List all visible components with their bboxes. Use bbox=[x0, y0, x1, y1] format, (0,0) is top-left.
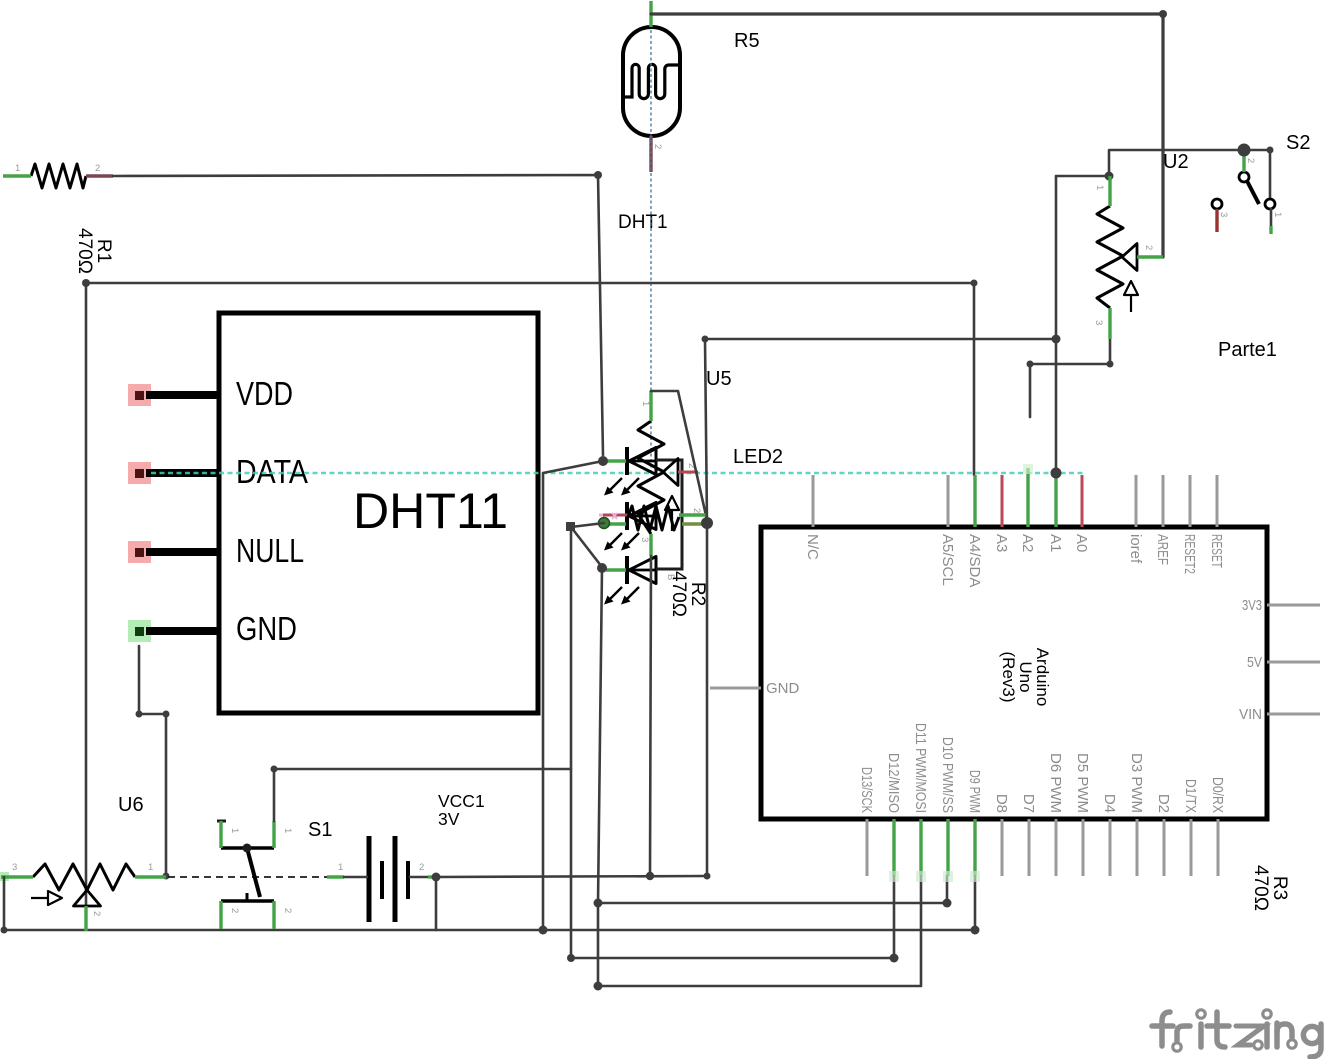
wire U5pin3 down bbox=[650, 556, 651, 876]
svg-text:VIN: VIN bbox=[1239, 706, 1262, 723]
svg-text:U2: U2 bbox=[1163, 151, 1189, 173]
svg-text:D12/MISO: D12/MISO bbox=[885, 753, 902, 813]
LED2 pin blue wire (anode B) bbox=[606, 568, 626, 571]
Parte1 label bbox=[1218, 339, 1277, 361]
svg-text:2: 2 bbox=[91, 911, 102, 916]
wire U2 pin3 to A2 bbox=[1030, 339, 1110, 417]
svg-text:Parte1: Parte1 bbox=[1218, 339, 1277, 361]
ratsnest teal horizontal DATA-A0 bbox=[151, 472, 1083, 475]
svg-text:D5 PWM: D5 PWM bbox=[1074, 753, 1091, 813]
LED2 red emission arrows bbox=[604, 478, 639, 496]
junction B (LED green anode) bbox=[599, 518, 610, 529]
svg-text:AREF: AREF bbox=[1154, 534, 1171, 565]
wire U5 pin1 to node D bbox=[651, 391, 707, 520]
S2 pin 3 stub bbox=[1217, 209, 1229, 232]
svg-text:DHT1: DHT1 bbox=[618, 212, 668, 233]
U2 pin 3 bbox=[1093, 308, 1110, 339]
LED2 green emission arrows bbox=[604, 533, 639, 551]
svg-text:S2: S2 bbox=[1286, 132, 1310, 154]
junction rail left end bbox=[1, 927, 8, 934]
U6 pin 1 bbox=[135, 862, 166, 877]
junction A (LED red anode) bbox=[598, 456, 608, 466]
svg-text:S1: S1 bbox=[308, 819, 332, 841]
svg-text:RESET2: RESET2 bbox=[1181, 534, 1198, 574]
pin tip glows bbox=[889, 464, 1033, 882]
photoresistor R5 bbox=[623, 27, 760, 136]
Arduino pin N/C bbox=[804, 475, 821, 560]
Arduino pin D4 bbox=[1101, 794, 1118, 876]
junction A1 ratsnest dot bbox=[1051, 468, 1062, 479]
Arduino pin A5/SCL bbox=[939, 475, 956, 586]
svg-text:3: 3 bbox=[639, 537, 650, 542]
svg-text:A5/SCL: A5/SCL bbox=[939, 534, 956, 586]
S1 pin 2b bbox=[274, 901, 293, 929]
junction rail D9 corner bbox=[971, 926, 980, 935]
U6 pin 3 bbox=[0, 862, 33, 881]
photoresistor R5 pin 2 bbox=[651, 136, 663, 172]
wire battery junction down bbox=[435, 877, 438, 930]
Arduino pin D13/SCK bbox=[858, 767, 875, 876]
Arduino pin ioref bbox=[1127, 475, 1144, 564]
DHT11 pin DATA bbox=[128, 453, 308, 490]
Arduino pin D3 PWM bbox=[1128, 753, 1145, 876]
Arduino pin D1/TX bbox=[1182, 779, 1199, 876]
junction R5 top bbox=[1159, 10, 1167, 18]
Arduino pin VIN bbox=[1239, 706, 1320, 723]
RGB LED LED2 red channel diode bbox=[627, 447, 657, 475]
wire down to U6 wiper bbox=[85, 283, 88, 905]
svg-text:2: 2 bbox=[652, 144, 663, 149]
wire B to bend P1 bbox=[571, 523, 604, 958]
Arduino pin D5 PWM bbox=[1074, 753, 1091, 876]
junction A1 net corner bbox=[702, 336, 709, 343]
junction battery pin2 bbox=[432, 873, 441, 882]
svg-text:1: 1 bbox=[15, 163, 20, 174]
Arduino pin AREF bbox=[1154, 475, 1171, 565]
wire U6 pin3 down bbox=[3, 877, 6, 930]
junction x650 rail bbox=[646, 872, 654, 880]
svg-text:A2: A2 bbox=[1019, 534, 1036, 552]
resistor R2 pin 2 bbox=[679, 508, 706, 515]
svg-text:D9 PWM: D9 PWM bbox=[966, 770, 983, 813]
wire DHT11 GND down bbox=[139, 646, 166, 876]
LED2 pin 1 unconnected stub bbox=[599, 513, 628, 519]
junction U2 pin1 bbox=[1105, 172, 1114, 181]
svg-text:D11 PWM/MOSI: D11 PWM/MOSI bbox=[912, 723, 929, 813]
svg-text:1: 1 bbox=[229, 828, 240, 833]
junction S2 pin2 bbox=[1238, 144, 1251, 157]
junction GND wire corner2 bbox=[163, 711, 170, 718]
svg-text:1: 1 bbox=[640, 401, 651, 406]
svg-text:D1/TX: D1/TX bbox=[1182, 779, 1199, 813]
resistor R2 bbox=[628, 506, 708, 617]
wire R1 to LED node bbox=[113, 175, 603, 455]
svg-text:A1: A1 bbox=[1047, 534, 1064, 552]
svg-text:2: 2 bbox=[419, 862, 424, 873]
S2 pin 2 bbox=[1244, 155, 1256, 172]
bend point P1 bbox=[566, 522, 575, 531]
junction GND wire corner1 bbox=[136, 711, 143, 718]
Arduino pin 3V3 bbox=[1242, 597, 1320, 614]
trimmer potentiometer U2 bbox=[1097, 151, 1189, 312]
Arduino pin A0 bbox=[1073, 475, 1090, 552]
Arduino Uno U1 body bbox=[761, 527, 1267, 819]
svg-text:DATA: DATA bbox=[236, 453, 308, 490]
svg-text:1: 1 bbox=[1272, 212, 1283, 217]
svg-text:D2: D2 bbox=[1155, 794, 1172, 813]
wire GND row to arduino bbox=[436, 876, 707, 877]
RGB LED LED2 blue channel diode bbox=[627, 556, 657, 584]
wire ground rail bottom bbox=[4, 876, 975, 930]
junction U2pin3 corner bbox=[1107, 361, 1114, 368]
Arduino pin 5V bbox=[1247, 654, 1320, 671]
Arduino pin D0/RX bbox=[1209, 777, 1226, 876]
U5 pin 1 bbox=[640, 391, 651, 421]
svg-text:2: 2 bbox=[95, 163, 100, 174]
LED2 label bbox=[733, 446, 783, 468]
resistor R1 bbox=[31, 164, 114, 274]
LED2 pin red wire (anode R) bbox=[606, 459, 626, 462]
svg-text:RESET: RESET bbox=[1208, 534, 1225, 568]
Arduino pin D8 bbox=[993, 794, 1010, 876]
svg-text:3V3: 3V3 bbox=[1242, 597, 1262, 614]
S2 pin 1 bbox=[1271, 209, 1283, 234]
svg-text:R5: R5 bbox=[734, 30, 760, 52]
Arduino pin RESET2 bbox=[1181, 475, 1198, 574]
svg-text:1: 1 bbox=[1094, 185, 1105, 190]
DHT11 sensor U? body bbox=[219, 313, 538, 713]
Arduino pin D11 PWM/MOSI bbox=[912, 723, 929, 876]
U6 pin 2 bbox=[86, 906, 102, 931]
S1 pin 2a bbox=[221, 901, 240, 929]
svg-text:NULL: NULL bbox=[236, 532, 304, 569]
junction A4 corner bbox=[971, 280, 978, 287]
Arduino pin RESET bbox=[1208, 475, 1225, 568]
svg-text:GND: GND bbox=[236, 610, 297, 647]
svg-text:2: 2 bbox=[1143, 245, 1154, 250]
svg-text:U6: U6 bbox=[118, 794, 144, 816]
switch S2 bbox=[1212, 132, 1310, 209]
wire S1 to P1 net bbox=[274, 769, 571, 821]
wire DATA-side vertical bbox=[543, 461, 603, 930]
Arduino pin A4/SDA bbox=[966, 475, 983, 587]
dashed wire U6 to battery bbox=[168, 876, 327, 878]
junction R1 wire corner bbox=[594, 171, 602, 179]
svg-text:2: 2 bbox=[229, 908, 240, 913]
svg-text:1: 1 bbox=[148, 862, 153, 873]
svg-text:A4/SDA: A4/SDA bbox=[966, 534, 983, 587]
resistor R1 pin 1 bbox=[3, 163, 31, 176]
U5 pin 3 bbox=[639, 534, 651, 556]
svg-text:3: 3 bbox=[12, 862, 17, 873]
LED2 blue emission arrows bbox=[604, 587, 639, 605]
Arduino pin D10 PWM/SS bbox=[939, 737, 956, 876]
DHT1 label bbox=[618, 212, 668, 233]
Arduino pin D9 PWM bbox=[966, 770, 983, 876]
junction S2 right corner bbox=[1267, 147, 1274, 154]
svg-text:A3: A3 bbox=[993, 534, 1010, 552]
battery VCC1 bbox=[369, 791, 485, 922]
svg-text:1: 1 bbox=[282, 828, 293, 833]
LED2 pin B label bbox=[665, 574, 676, 580]
svg-text:5V: 5V bbox=[1247, 654, 1262, 671]
svg-text:D6 PWM: D6 PWM bbox=[1047, 753, 1064, 813]
trimmer potentiometer U5 bbox=[638, 368, 732, 534]
R3 label bbox=[1250, 865, 1290, 911]
wire P1 to C diagonal bbox=[571, 527, 602, 567]
Arduino pin D7 bbox=[1020, 794, 1037, 876]
wire A4 vertical bbox=[973, 283, 976, 475]
U5 pin 2 stub bbox=[678, 463, 698, 472]
Arduino pin D12/MISO bbox=[885, 753, 902, 876]
junction D12 corner2 bbox=[890, 954, 899, 963]
LED2 pin green wire (anode G) bbox=[607, 522, 626, 525]
Arduino pin A2 bbox=[1019, 468, 1036, 552]
Arduino pin D2 bbox=[1155, 794, 1172, 876]
junction A1 net x1056 bbox=[1052, 335, 1061, 344]
junction D12 row corner bbox=[567, 954, 575, 962]
wire A1 net horizontal bbox=[705, 338, 1056, 341]
RGB LED LED2 green channel diode bbox=[627, 502, 657, 530]
svg-text:VDD: VDD bbox=[236, 375, 293, 412]
svg-text:2: 2 bbox=[282, 908, 293, 913]
battery pin 2 bbox=[410, 862, 435, 877]
switch S1 top caps bbox=[217, 819, 332, 901]
svg-text:GND: GND bbox=[766, 680, 800, 697]
junction D10 row start bbox=[594, 899, 603, 908]
junction A2 corner bbox=[1027, 361, 1034, 368]
svg-text:U5: U5 bbox=[706, 368, 732, 390]
svg-text:VCC1: VCC1 bbox=[438, 791, 485, 811]
DHT11 pin GND bbox=[128, 610, 297, 647]
svg-text:D3 PWM: D3 PWM bbox=[1128, 753, 1145, 813]
svg-text:3V: 3V bbox=[438, 809, 460, 829]
fritzing watermark bbox=[1152, 1010, 1321, 1057]
wire U2 pin1 net bbox=[1056, 150, 1270, 199]
svg-text:3: 3 bbox=[1218, 212, 1229, 217]
battery pin 1 bbox=[327, 862, 367, 877]
junction rail x542 bbox=[539, 926, 548, 935]
junction D (common node) bbox=[701, 517, 713, 529]
junction D11 corner bbox=[594, 982, 603, 991]
U2 pin 1 bbox=[1094, 176, 1110, 206]
svg-text:LED2: LED2 bbox=[733, 446, 783, 468]
svg-text:D8: D8 bbox=[993, 794, 1010, 813]
DHT11 pin VDD bbox=[128, 375, 293, 412]
Arduino pin A1 bbox=[1047, 477, 1064, 552]
wire D10 row bbox=[598, 876, 947, 903]
junction C (LED blue anode) bbox=[597, 563, 607, 573]
Arduino pin D6 PWM bbox=[1047, 753, 1064, 876]
svg-text:D7: D7 bbox=[1020, 794, 1037, 813]
svg-text:N/C: N/C bbox=[804, 534, 821, 560]
wire node D to GND rail vertical bbox=[705, 339, 707, 876]
svg-text:1: 1 bbox=[338, 862, 343, 873]
S1 pin 1a bbox=[221, 821, 240, 848]
svg-text:2: 2 bbox=[1245, 158, 1256, 163]
wire R5 top feed bbox=[651, 14, 1163, 257]
junction D10 corner bbox=[943, 899, 952, 908]
svg-text:A0: A0 bbox=[1073, 534, 1090, 552]
svg-text:D4: D4 bbox=[1101, 794, 1118, 813]
wire node R1/A4 horizontal bbox=[86, 282, 974, 285]
trimmer potentiometer U6 bbox=[31, 794, 144, 906]
junction GND rail right end bbox=[704, 873, 711, 880]
wire A1 vertical bbox=[1055, 176, 1058, 473]
DHT11 pin NULL bbox=[128, 532, 304, 569]
svg-text:3: 3 bbox=[1093, 320, 1104, 325]
junction S1 wire corner bbox=[271, 766, 278, 773]
svg-text:D10 PWM/SS: D10 PWM/SS bbox=[939, 737, 956, 813]
junction node R1/A4 bbox=[82, 279, 90, 287]
S1 junction dot bbox=[243, 844, 252, 853]
svg-text:2: 2 bbox=[691, 508, 702, 513]
wire C down to D10 row bbox=[598, 568, 921, 986]
S1 pin 1b bbox=[274, 821, 293, 848]
ratsnest teal vertical R5-U5 bbox=[650, 30, 652, 472]
junction U6 pin1 node bbox=[163, 873, 170, 880]
Arduino pin GND bbox=[710, 680, 800, 697]
Arduino pin A3 bbox=[993, 475, 1010, 552]
LED2 common rail bbox=[656, 460, 682, 569]
svg-text:D0/RX: D0/RX bbox=[1209, 777, 1226, 813]
svg-text:ioref: ioref bbox=[1127, 534, 1144, 564]
LED2 common pin wire bbox=[682, 522, 703, 525]
wire D12 row bbox=[571, 876, 894, 958]
svg-text:D13/SCK: D13/SCK bbox=[858, 767, 875, 813]
resistor R1 pin 2 bbox=[86, 163, 113, 176]
U2 pin 2 bbox=[1137, 245, 1163, 257]
svg-text:DHT11: DHT11 bbox=[353, 483, 508, 539]
photoresistor R5 pin 1 bbox=[649, 1, 652, 27]
